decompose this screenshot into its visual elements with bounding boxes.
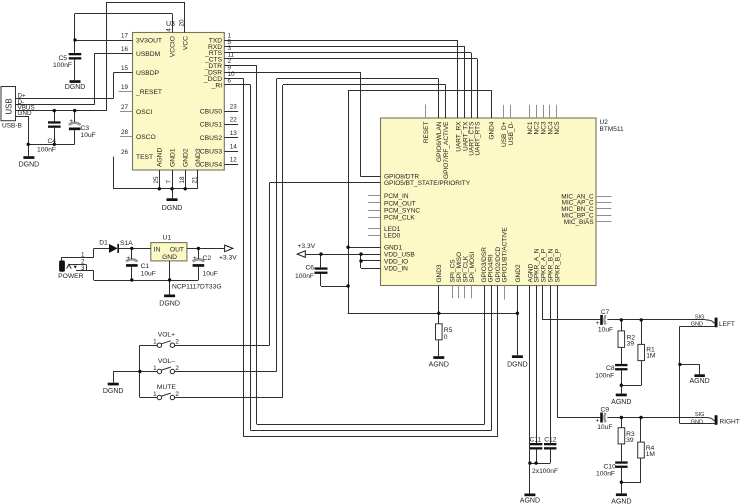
svg-text:GPIO1/BT/ACTIVE: GPIO1/BT/ACTIVE	[502, 227, 509, 283]
svg-text:OUT: OUT	[170, 246, 184, 253]
svg-text:10uF: 10uF	[597, 424, 612, 431]
svg-text:100nF: 100nF	[596, 471, 615, 478]
svg-text:SPKR_B_N: SPKR_B_N	[548, 248, 555, 282]
svg-text:+3.3V: +3.3V	[219, 255, 237, 262]
svg-text:4: 4	[166, 28, 173, 32]
svg-text:CBUS1: CBUS1	[200, 122, 223, 129]
svg-text:TEST: TEST	[136, 154, 153, 161]
svg-text:6: 6	[228, 77, 232, 84]
svg-text:1M: 1M	[646, 451, 656, 458]
svg-text:26: 26	[121, 149, 129, 156]
svg-text:DGND: DGND	[507, 362, 528, 369]
svg-text:0: 0	[444, 334, 448, 341]
svg-text:USBDP: USBDP	[136, 70, 160, 77]
svg-text:14: 14	[230, 144, 238, 151]
svg-text:13: 13	[230, 130, 238, 137]
svg-text:GND: GND	[18, 110, 32, 117]
svg-text:GND2: GND2	[183, 148, 190, 167]
svg-text:DGND: DGND	[159, 300, 180, 307]
svg-text:GPIO6/WLAN: GPIO6/WLAN	[436, 121, 443, 162]
svg-text:17: 17	[121, 32, 129, 39]
svg-text:3: 3	[81, 265, 85, 272]
svg-text:GPIO7/RF_ACTIVE: GPIO7/RF_ACTIVE	[443, 121, 450, 179]
svg-text:USB_D-: USB_D-	[508, 122, 515, 146]
svg-text:1: 1	[153, 391, 157, 398]
svg-text:VDD_IO: VDD_IO	[384, 258, 408, 265]
svg-text:GND2: GND2	[515, 264, 522, 282]
svg-text:C10: C10	[604, 463, 617, 470]
svg-text:+: +	[126, 255, 130, 262]
svg-text:2: 2	[175, 339, 179, 346]
svg-text:LEFT: LEFT	[719, 321, 735, 328]
svg-text:SPKR_A_P: SPKR_A_P	[540, 249, 547, 283]
svg-text:OSCI: OSCI	[136, 109, 152, 116]
svg-text:C4: C4	[47, 138, 56, 145]
svg-text:100nF: 100nF	[295, 273, 314, 280]
svg-text:GND: GND	[691, 419, 703, 425]
svg-text:OSCO: OSCO	[136, 134, 156, 141]
svg-text:CBUS2: CBUS2	[200, 135, 223, 142]
svg-text:100nF: 100nF	[53, 62, 72, 69]
svg-text:CBUS3: CBUS3	[200, 149, 223, 156]
svg-text:VOL–: VOL–	[158, 358, 175, 365]
svg-text:GPIO5/BT_STATE/PRIORITY: GPIO5/BT_STATE/PRIORITY	[384, 180, 471, 187]
svg-text:RIGHT: RIGHT	[720, 418, 740, 425]
svg-text:16: 16	[121, 46, 129, 53]
svg-text:C11: C11	[530, 436, 542, 443]
svg-text:CBUS4: CBUS4	[200, 162, 223, 169]
svg-text:USB-B: USB-B	[2, 123, 22, 130]
svg-text:GND1: GND1	[169, 148, 176, 167]
svg-text:C7: C7	[601, 309, 610, 316]
svg-text:CBUS0: CBUS0	[200, 109, 223, 116]
svg-text:SIG: SIG	[695, 315, 705, 321]
svg-text:SPI_MOSI: SPI_MOSI	[469, 252, 476, 283]
svg-text:PCM_CLK: PCM_CLK	[384, 215, 415, 222]
svg-text:DGND: DGND	[162, 205, 183, 212]
svg-text:VOL+: VOL+	[158, 332, 175, 339]
svg-text:2: 2	[175, 391, 179, 398]
svg-text:VCCIO: VCCIO	[169, 36, 176, 57]
svg-text:18: 18	[179, 176, 186, 184]
svg-text:USB: USB	[4, 98, 13, 114]
svg-text:10uF: 10uF	[81, 132, 96, 139]
svg-text:10uF: 10uF	[598, 327, 613, 334]
svg-text:C3: C3	[81, 125, 90, 132]
svg-text:C5: C5	[58, 55, 67, 62]
svg-text:NCP1117DT33G: NCP1117DT33G	[172, 284, 222, 291]
svg-text:7: 7	[166, 180, 173, 184]
svg-text:_RESET: _RESET	[135, 89, 162, 96]
svg-text:UART_RTS: UART_RTS	[475, 121, 482, 156]
svg-text:MIC_BIAS: MIC_BIAS	[564, 219, 594, 226]
svg-text:SPKR_B_P: SPKR_B_P	[555, 249, 562, 283]
svg-text:AGND: AGND	[520, 497, 540, 504]
svg-text:C6: C6	[305, 265, 314, 272]
svg-text:NC5: NC5	[554, 121, 561, 134]
svg-text:PCM_IN: PCM_IN	[384, 193, 409, 200]
svg-text:U3: U3	[166, 21, 175, 28]
svg-text:39: 39	[627, 340, 635, 347]
svg-text:+: +	[69, 118, 73, 125]
svg-text:27: 27	[121, 104, 129, 111]
svg-text:BTM511: BTM511	[600, 126, 624, 133]
svg-text:GND3: GND3	[195, 148, 202, 167]
svg-text:UART_RX: UART_RX	[455, 121, 462, 152]
svg-text:21: 21	[191, 176, 198, 184]
svg-text:DGND: DGND	[19, 162, 40, 169]
svg-text:15: 15	[121, 65, 129, 72]
svg-text:C9: C9	[601, 407, 610, 414]
svg-text:C2: C2	[203, 255, 212, 262]
svg-text:PCM_SYNC: PCM_SYNC	[384, 207, 420, 214]
svg-text:100nF: 100nF	[595, 372, 614, 379]
svg-text:3V3OUT: 3V3OUT	[136, 37, 162, 44]
svg-text:19: 19	[121, 84, 129, 91]
svg-text:AGND: AGND	[689, 378, 709, 385]
svg-text:LED0: LED0	[384, 233, 401, 240]
svg-text:23: 23	[230, 104, 238, 111]
svg-text:RESET: RESET	[423, 121, 430, 143]
svg-text:DGND: DGND	[65, 84, 86, 91]
svg-text:GND: GND	[162, 254, 177, 261]
svg-text:PCM_OUT: PCM_OUT	[384, 200, 416, 207]
svg-text:MUTE: MUTE	[157, 384, 176, 391]
svg-text:25: 25	[153, 176, 160, 184]
svg-text:GPIO4/RI: GPIO4/RI	[487, 254, 494, 282]
svg-text:USBDM: USBDM	[136, 51, 161, 58]
svg-text:100nF: 100nF	[37, 147, 56, 154]
svg-text:2: 2	[175, 365, 179, 372]
svg-text:12: 12	[230, 157, 238, 164]
svg-text:C12: C12	[544, 436, 557, 443]
svg-text:VCC: VCC	[182, 36, 189, 50]
svg-text:AGND: AGND	[611, 498, 631, 504]
svg-text:D1: D1	[99, 240, 108, 247]
svg-text:+: +	[193, 255, 197, 262]
svg-text:AGND: AGND	[157, 148, 164, 167]
svg-text:SIG: SIG	[695, 412, 705, 418]
svg-text:VDD_IN: VDD_IN	[384, 265, 408, 272]
svg-text:10uF: 10uF	[203, 270, 218, 277]
svg-text:AGND: AGND	[429, 362, 449, 369]
svg-text:1: 1	[153, 339, 157, 346]
svg-text:C1: C1	[141, 263, 150, 270]
svg-text:2x100nF: 2x100nF	[532, 468, 558, 475]
svg-text:_RI: _RI	[211, 82, 223, 89]
svg-text:AGND: AGND	[611, 399, 631, 406]
svg-text:20: 20	[179, 19, 186, 27]
svg-text:POWER: POWER	[58, 273, 83, 280]
svg-text:S1A: S1A	[120, 240, 133, 247]
svg-text:IN: IN	[154, 246, 161, 253]
svg-text:10uF: 10uF	[141, 270, 156, 277]
svg-text:28: 28	[121, 129, 129, 136]
svg-text:22: 22	[230, 117, 238, 124]
svg-text:GND: GND	[691, 322, 703, 328]
svg-text:39: 39	[626, 437, 634, 444]
svg-text:1M: 1M	[646, 352, 656, 359]
svg-text:1: 1	[153, 365, 157, 372]
svg-text:GND3: GND3	[436, 264, 443, 282]
svg-text:DGND: DGND	[103, 388, 124, 395]
svg-text:U1: U1	[163, 235, 172, 242]
svg-text:+3.3V: +3.3V	[298, 243, 316, 250]
svg-text:C8: C8	[606, 365, 615, 372]
svg-text:GND4: GND4	[489, 121, 496, 139]
